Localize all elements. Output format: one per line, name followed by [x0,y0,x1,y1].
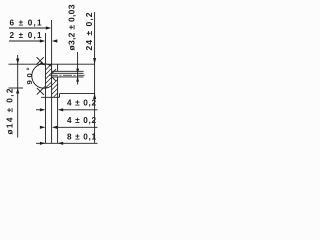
part circle ø14 [32,64,52,88]
hatching right block [52,80,58,86]
angle text 90° (vertical) [25,68,34,85]
svg-text:90°: 90° [25,68,34,85]
bottom X groove diagonal 1 [37,87,45,95]
center line (axis) [49,74,85,76]
hole top edge [52,72,84,74]
chamfer diagonal upper [52,69,56,73]
part step vertical [59,94,61,98]
extension line top (ø14 top + part top edge) [9,63,95,65]
svg-text:24 ± 0,2: 24 ± 0,2 [84,12,94,50]
dimension text 2 ± 0,1 [10,31,42,40]
svg-text:6 ± 0,1: 6 ± 0,1 [10,19,42,28]
dimension line 2 left part [9,40,43,42]
bottom dim row3: 8 ± 0,1 [67,133,96,142]
dimension line 2 right tail [54,40,56,42]
part step/shoulder line [52,70,84,72]
extension vertical x=45.5 [45,33,47,143]
dim line ø14 (left vertical with outside arrows) [17,55,19,138]
bottom dim row1: 4 ± 0,2 [67,99,96,108]
hole bottom edge [52,76,84,78]
bottom X groove diagonal 2 [37,88,44,95]
top X groove diagonal 2 [37,57,44,64]
extension vertical x=57.6 [57,64,59,71]
dimension text 6 ± 0,1 [10,19,42,28]
hatching center strip [46,64,58,97]
svg-text:8 ± 0,1: 8 ± 0,1 [67,133,96,142]
dimension text 24 ± 0,2 (vertical) [84,12,94,50]
part bottom right edge [60,93,95,95]
svg-text:4 ± 0,2: 4 ± 0,2 [67,116,96,125]
svg-text:4 ± 0,2: 4 ± 0,2 [67,99,96,108]
top X groove diagonal 1 with leader arrow [37,57,43,63]
dim line ø3,2 (vertical with outside arrows) [77,52,79,85]
dimension text ø3,2 ± 0,03 (vertical) [67,4,77,50]
bottom dim row2: 4 ± 0,2 [67,116,96,125]
chamfer diagonal lower [52,77,56,81]
extension vertical x=51.6 [51,20,53,143]
extension line ø14 bottom [9,87,24,89]
part bottom left edge [41,96,60,98]
svg-text:ø14 ± 0,2: ø14 ± 0,2 [6,88,15,134]
dimension line 6 [9,27,49,29]
svg-text:ø3,2 ± 0,03: ø3,2 ± 0,03 [67,4,77,50]
svg-text:2 ± 0,1: 2 ± 0,1 [10,31,42,40]
dim/datum line 24 (right vertical with outside arrows) [94,12,96,143]
dimension text ø14 ± 0,2 (vertical) [6,88,15,134]
